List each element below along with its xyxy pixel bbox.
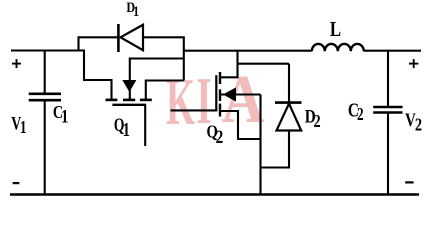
- minus sign left: [13, 182, 20, 184]
- capacitor C1 bottom lead: [44, 101, 46, 195]
- svg-text:2: 2: [314, 112, 321, 132]
- node vertical x184 (D1 anode / Q1 source net): [183, 36, 185, 80]
- wire Q2 drain drop: [220, 51, 238, 78]
- svg-text:1: 1: [61, 106, 68, 127]
- svg-text:2: 2: [415, 114, 422, 135]
- label C1: [53, 104, 68, 127]
- wire Q2 gate lead: [171, 109, 217, 111]
- wire Q2 source/body net vertical: [259, 95, 261, 195]
- svg-text:2: 2: [216, 127, 224, 148]
- transistor Q1: [106, 81, 152, 105]
- plus sign right: [409, 59, 418, 68]
- svg-text:K: K: [166, 65, 195, 139]
- capacitor C2 bottom lead: [387, 113, 389, 195]
- watermark KIA: [166, 61, 264, 139]
- wire D1 left branch: [79, 37, 119, 51]
- wire D1 right: [143, 36, 184, 38]
- diode D2: [275, 103, 302, 131]
- label Q1: [114, 115, 130, 141]
- capacitor C2 plates: [373, 107, 402, 113]
- label V2: [405, 109, 422, 135]
- wire rail after inductor: [364, 50, 421, 52]
- svg-text:1: 1: [123, 118, 130, 141]
- wire top-left rail: [11, 49, 84, 51]
- wire bottom rail: [10, 193, 419, 195]
- svg-text:A: A: [221, 61, 264, 137]
- plus sign left: [12, 59, 21, 68]
- label V1: [11, 112, 26, 137]
- svg-text:2: 2: [357, 105, 364, 124]
- inductor L: [312, 44, 364, 51]
- wire top rail right: [184, 50, 312, 52]
- wire Q1 gate lead: [144, 105, 146, 146]
- transistor Q2: [216, 72, 235, 117]
- wire Q2 source terminal: [220, 111, 261, 139]
- svg-text:1: 1: [20, 118, 27, 137]
- wire Q1 drain path: [84, 50, 112, 100]
- wire D2 bottom lead: [261, 131, 290, 168]
- label D2: [305, 106, 321, 132]
- svg-text:1: 1: [133, 3, 139, 19]
- wire Q2 body terminal: [220, 93, 261, 95]
- capacitor C1 top lead: [44, 51, 46, 94]
- label C2: [348, 98, 364, 124]
- wire Q1 middle terminal: [130, 59, 184, 100]
- wire D2 top lead: [288, 64, 290, 102]
- wire D2 cathode branch: [237, 63, 290, 65]
- minus sign right: [405, 181, 413, 183]
- diode D1: [118, 24, 143, 52]
- label L: [330, 18, 341, 41]
- capacitor C1 plates: [29, 94, 61, 100]
- label D1: [126, 0, 139, 19]
- capacitor C2 top lead: [387, 51, 389, 106]
- svg-text:L: L: [330, 18, 341, 41]
- wire Q1 right terminal: [146, 81, 184, 100]
- label Q2: [206, 121, 223, 148]
